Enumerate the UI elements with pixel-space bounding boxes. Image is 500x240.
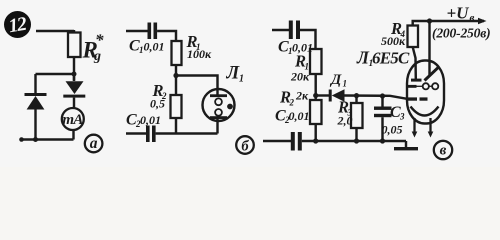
svg-text:0,01: 0,01 bbox=[140, 113, 161, 127]
wire R3 top bbox=[355, 96, 357, 103]
wire R1 to R2 bbox=[314, 74, 316, 100]
resistor R1 bbox=[310, 49, 322, 74]
paper background bbox=[0, 0, 500, 167]
svg-text:0,01: 0,01 bbox=[144, 40, 165, 54]
svg-text:2,0: 2,0 bbox=[337, 114, 353, 128]
grid dashes bbox=[407, 97, 428, 100]
svg-text:mA: mA bbox=[62, 112, 83, 128]
resistor R4 bbox=[408, 26, 419, 48]
label R2 0,5 bbox=[150, 81, 167, 111]
svg-text:+U: +U bbox=[447, 4, 470, 23]
svg-text:(200-250в): (200-250в) bbox=[432, 26, 490, 42]
svg-text:б: б bbox=[241, 139, 249, 155]
wire C1 to corner bbox=[300, 30, 316, 49]
junction dot R3 bbox=[354, 93, 359, 98]
label L1 bbox=[226, 64, 245, 85]
wire input top bbox=[272, 29, 289, 31]
svg-text:6Е5С: 6Е5С bbox=[372, 49, 410, 68]
label R1 100k bbox=[186, 32, 213, 61]
bottom wire bbox=[21, 138, 74, 140]
label (a) bbox=[85, 135, 103, 153]
junction dot R2 bottom bbox=[313, 138, 318, 143]
capacitor C3 bbox=[374, 96, 392, 141]
wire R2 to bottom bbox=[175, 118, 177, 134]
wire R4 bottom to anode bbox=[413, 47, 416, 79]
resistor R3 bbox=[351, 103, 363, 128]
svg-text:в: в bbox=[440, 143, 447, 159]
diode VD1 (pointing up) bbox=[25, 93, 47, 110]
label C1 0,01 bbox=[278, 39, 313, 57]
junction dot C3 top bbox=[380, 93, 385, 98]
figure badge 12 bbox=[4, 11, 31, 38]
junction dot R3 bottom bbox=[354, 138, 359, 143]
wire node to left branch bbox=[36, 73, 75, 75]
svg-text:0,5: 0,5 bbox=[150, 97, 165, 111]
wire R1 to junction bbox=[175, 65, 177, 95]
junction dot bbox=[173, 73, 178, 78]
tube L1 6E5C envelope bbox=[407, 61, 444, 124]
anode bar bbox=[411, 79, 422, 82]
grid wire from junction bbox=[316, 94, 329, 96]
svg-text:0,05: 0,05 bbox=[382, 123, 403, 137]
wire diode to bottom bbox=[34, 109, 36, 140]
wire Rg to node bbox=[73, 57, 75, 81]
svg-text:2: 2 bbox=[289, 98, 295, 108]
label R2 2k bbox=[279, 88, 309, 108]
wire input top bbox=[126, 30, 148, 32]
svg-text:0,01: 0,01 bbox=[289, 109, 310, 123]
bottom wire left bbox=[263, 140, 291, 142]
svg-text:2к: 2к bbox=[295, 89, 309, 103]
svg-text:3: 3 bbox=[399, 112, 405, 122]
target electrode (tilted) bbox=[425, 67, 439, 80]
junction dot C3 bottom bbox=[380, 138, 385, 143]
capacitor C1 bbox=[148, 23, 158, 40]
label R1 20k bbox=[290, 52, 310, 84]
label Rg* bbox=[82, 31, 105, 65]
label C1 0,01 bbox=[129, 38, 165, 56]
junction dot bottom bbox=[33, 137, 38, 142]
svg-text:100к: 100к bbox=[187, 47, 212, 61]
capacitor C2 bbox=[146, 126, 156, 143]
cathode arc bbox=[411, 107, 439, 116]
bottom wire bbox=[126, 132, 146, 134]
svg-text:20к: 20к bbox=[290, 70, 310, 84]
wire end terminal bbox=[19, 137, 24, 142]
wire node to diode VD2 bbox=[73, 74, 75, 81]
label (v) bbox=[434, 141, 452, 159]
resistor Rg bbox=[68, 33, 81, 58]
junction dot grid wire bbox=[313, 93, 318, 98]
svg-text:*: * bbox=[95, 31, 104, 50]
svg-text:500к: 500к bbox=[381, 34, 406, 48]
wire input top bbox=[36, 30, 74, 32]
tube socket L1 bbox=[203, 89, 235, 134]
wire anode lead from +U bbox=[428, 21, 430, 76]
grid row with contacts bbox=[407, 83, 438, 89]
wire junction to socket bbox=[176, 76, 218, 96]
label C3 0,05 bbox=[382, 104, 406, 137]
resistor R1 bbox=[172, 41, 182, 65]
junction dot anode lead bbox=[427, 18, 432, 23]
wire meter to bottom bbox=[72, 130, 74, 140]
svg-text:g: g bbox=[93, 49, 101, 64]
label (b) bbox=[236, 136, 254, 154]
wire diode to meter bbox=[73, 98, 75, 109]
arrow +U bbox=[478, 18, 487, 24]
capacitor C2 bbox=[291, 132, 302, 151]
wire C1 to corner bbox=[157, 31, 176, 41]
svg-text:1: 1 bbox=[239, 74, 244, 85]
wire R2 to bottom bbox=[314, 124, 316, 141]
ground bbox=[394, 141, 418, 150]
bottom wire right bbox=[156, 132, 218, 134]
wire R4 top to +U bbox=[413, 21, 484, 26]
label R4 500k bbox=[381, 19, 406, 48]
diode D1 (pointing left) bbox=[329, 89, 345, 101]
svg-text:а: а bbox=[90, 135, 98, 152]
wire down to Rg bbox=[73, 30, 75, 33]
svg-text:Д: Д bbox=[329, 72, 342, 88]
grid wire diode to tube bbox=[345, 96, 408, 99]
label R3 2,0 bbox=[337, 98, 353, 128]
resistor R2 bbox=[171, 95, 182, 118]
label C2 0,01 bbox=[275, 108, 310, 126]
svg-text:1: 1 bbox=[343, 79, 348, 89]
capacitor C1 bbox=[289, 21, 300, 40]
heater lead left bbox=[412, 118, 418, 138]
label C2 0,01 bbox=[126, 112, 161, 130]
label D1 bbox=[329, 72, 347, 89]
meter mA bbox=[62, 108, 84, 130]
label +Ub bbox=[447, 4, 475, 25]
diode VD2 (pointing down) bbox=[63, 81, 85, 97]
bottom wire bbox=[302, 140, 406, 142]
wire R3 bottom bbox=[355, 128, 357, 141]
node junction dot bbox=[72, 72, 77, 77]
wire left branch down bbox=[34, 74, 36, 94]
svg-text:в: в bbox=[470, 12, 475, 24]
heater lead right bbox=[428, 118, 434, 138]
resistor R2 bbox=[310, 100, 322, 124]
label L1 6E5C bbox=[356, 48, 410, 70]
